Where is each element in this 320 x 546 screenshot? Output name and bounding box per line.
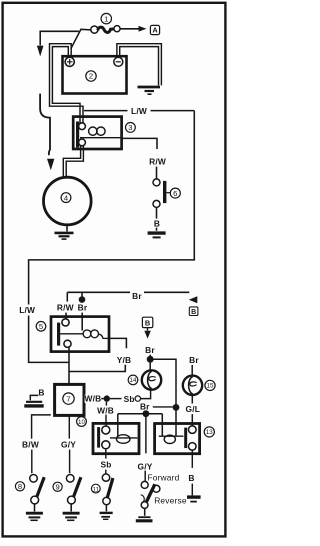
svg-text:Br: Br [140,401,150,411]
ground magneto [55,225,74,239]
svg-text:Br: Br [145,345,155,355]
svg-text:R/W: R/W [149,156,166,166]
node 3 label [125,123,135,133]
node G/Y drop junction [143,410,150,417]
ground switch 6 [148,233,166,237]
lamp 15 [183,376,202,395]
svg-text:Sb: Sb [100,460,111,470]
wire fuse to battery+ [71,29,91,48]
svg-text:9: 9 [55,483,59,492]
svg-text:L/W: L/W [19,305,35,315]
wire L/W horizontal [84,110,194,112]
svg-text:Br: Br [189,355,199,365]
switch 11 [100,474,113,519]
CDI unit 7 [55,384,84,415]
svg-text:10: 10 [78,419,85,426]
wire B/W to switch 8 [32,415,51,439]
wire Br stub to lamp 14 [149,359,151,370]
ground relay 13 [187,497,201,502]
svg-text:W/B: W/B [85,394,102,404]
wire B relay 13 to ground [191,450,193,468]
wire regulator to magneto double line [63,146,80,178]
svg-text:W/B: W/B [97,405,114,415]
wire resuming to magneto with arrow [40,94,50,156]
connector B right [189,307,198,316]
node 5 label [36,322,46,332]
svg-text:15: 15 [207,383,214,390]
wire R/W into relay 5 [66,292,68,301]
relay 5 [51,317,109,352]
svg-text:B: B [145,318,150,327]
svg-text:Sb: Sb [124,394,135,404]
lamp 14 [142,370,161,389]
svg-text:6: 6 [173,189,177,198]
wire Br top with connector B [67,291,189,293]
svg-text:B: B [188,473,194,483]
forward/reverse switch 12 [136,473,187,521]
wire R/W from regulator [122,138,158,149]
svg-text:3: 3 [128,123,132,132]
ground B left of CDI [24,387,44,406]
svg-text:Reverse: Reverse [154,496,187,506]
svg-text:Y/B: Y/B [117,355,132,365]
switch 8 [26,475,44,521]
border frame [3,3,226,537]
regulator 3 [73,117,121,149]
switch 9 [63,475,81,521]
node W/B junction [104,395,110,401]
ground battery [138,87,161,94]
node Br junction lower [173,404,180,411]
svg-text:L/W: L/W [131,106,147,116]
node 11 label [91,484,100,493]
relay 10 [93,423,139,453]
wire W/B down to relay 10 [105,402,107,406]
wire G/L lamp 15 to relay 13 [191,395,193,403]
svg-text:4: 4 [64,193,68,202]
fuse 1 [91,13,120,33]
svg-text:2: 2 [89,72,93,81]
svg-text:Forward: Forward [147,473,179,483]
svg-text:B: B [154,218,160,228]
wire B below switch 6 [156,208,158,219]
magneto 4 [44,177,92,225]
svg-text:Br: Br [78,303,88,313]
svg-text:R/W: R/W [57,303,74,313]
svg-text:B/W: B/W [22,439,39,449]
arrow from connector B [189,296,198,303]
svg-text:B: B [38,387,44,397]
wire relay 5 to CDI 7 [68,347,70,384]
svg-text:5: 5 [39,322,43,331]
svg-text:11: 11 [93,486,100,493]
wire battery- double line to ground [117,44,161,86]
svg-text:1: 1 [104,14,108,23]
svg-text:13: 13 [206,429,213,436]
connector A [150,25,159,34]
wire battery+ double line to regulator 3 [52,47,80,123]
connector B feed to lamps [142,317,152,327]
wire G/Y to switch 9 [68,415,70,438]
svg-text:A: A [152,26,158,35]
wire branch with down arrow [40,31,79,45]
node 10 label [77,417,87,427]
node 13 label [204,427,214,437]
battery 2 [63,56,127,93]
svg-text:B: B [191,309,196,316]
svg-text:G/L: G/L [186,404,201,414]
wire L/W down right side into section 2 [29,111,195,363]
node Br junction lamps [147,356,154,363]
node Br junction on relay 5 [79,296,86,303]
arrow A to boxed A [120,28,139,30]
node 14 label [128,375,138,385]
svg-text:7: 7 [66,394,70,403]
node 9 label [53,482,62,491]
svg-text:G/Y: G/Y [61,439,76,449]
wire Y/B from relay 5 [109,338,126,348]
relay 13 [155,424,200,454]
svg-text:14: 14 [130,377,137,384]
svg-text:Br: Br [132,291,142,301]
node 15 label [205,380,215,390]
wire Sb relay 10 to switch 11 [105,449,107,459]
node 8 label [15,482,24,491]
svg-text:8: 8 [18,482,22,491]
wire W/B from CDI [84,398,104,400]
main switch 6 [153,179,180,208]
wire Br to vertical [150,359,176,404]
svg-text:G/Y: G/Y [137,461,152,471]
wire Sb to lamp 14 [110,398,122,400]
wire Br rail to relay coils [118,414,163,437]
